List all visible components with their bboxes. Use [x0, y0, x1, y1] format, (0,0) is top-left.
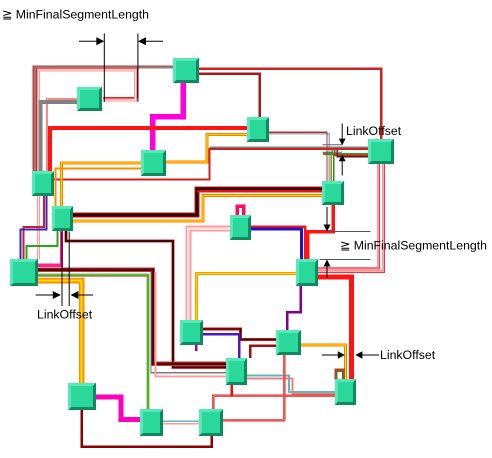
wire red thick N7 to N11 [308, 205, 333, 259]
wire maroon N10 to N17 [38, 270, 226, 364]
wire teal N15 to N16 [163, 420, 199, 422]
wire deeppink N8 to N12 [38, 231, 62, 265]
wire red N16 to N18 [213, 396, 335, 409]
wire gray into N17 [151, 272, 226, 373]
wire maroon jog into N5 [337, 150, 368, 157]
wire maroon N8 to N17 [66, 231, 226, 367]
wire red-green N10 to N15 [38, 275, 148, 409]
node N7 [322, 181, 344, 205]
wire green jog into N5 [332, 150, 368, 154]
annotation A4 MinFinalSegmentLength right [320, 207, 488, 278]
wire magenta N14 to N15 [96, 397, 140, 420]
wire salmon N15 to N16 [163, 423, 199, 425]
wire olive N8 to N10 [27, 231, 58, 261]
node N11 [296, 259, 318, 286]
annotation A1 MinFinalSegmentLength top-left [2, 8, 163, 102]
node N5 [368, 139, 394, 164]
wire magenta N1 to N3 [153, 83, 184, 150]
node N4 [247, 117, 269, 142]
node N6 [32, 171, 54, 196]
wire salmon N17 to N18 [247, 379, 335, 394]
wire orange N3 to N4 [166, 135, 247, 163]
wire purple N6 to N10 [21, 196, 47, 261]
svg-text:LinkOffset: LinkOffset [346, 124, 402, 138]
annotation A2 LinkOffset right [323, 124, 402, 176]
node N12 [180, 320, 203, 345]
wire blue N9 to N11 [251, 229, 302, 259]
wire maroon N14 to N16 [82, 410, 212, 447]
wire red into N7 [197, 191, 322, 193]
wire darkred N13 to N17 [250, 346, 276, 359]
wire crimson N1 to N5 [199, 69, 381, 139]
svg-text:≧ MinFinalSegmentLength: ≧ MinFinalSegmentLength [2, 8, 149, 22]
wire red thick N11 to N18 [318, 277, 352, 379]
wire salmon-red N5 to N11 b [318, 164, 384, 272]
wire crimson N6 to N5 [53, 149, 368, 179]
annotation A5 LinkOffset bottom-right [322, 348, 436, 362]
wire orange N3 to N8 [62, 163, 142, 206]
node N2 [77, 87, 102, 111]
wire orange N8 to N7 [73, 195, 322, 221]
node N8 [52, 206, 73, 231]
wire red N13 to N16 [223, 355, 285, 420]
wire red loop N2 to N6 [37, 69, 138, 171]
wire crimson N6 to N10 [24, 196, 45, 261]
wire salmon-red N5 to N11 a [318, 164, 379, 268]
svg-text:≧ MinFinalSegmentLength: ≧ MinFinalSegmentLength [340, 239, 487, 253]
wire darkred N12 to N13 [202, 329, 276, 340]
wire purple stub N12 [195, 345, 198, 351]
wire salmon into N17 [155, 272, 226, 376]
wire gray thick N2 to N6 [41, 102, 78, 171]
wire maroon N8 to N7 [73, 189, 322, 215]
node N17 [226, 358, 247, 385]
wire gray thin loop N1 to N6 [33, 66, 174, 171]
wire orange2 N3 to N8 [56, 169, 142, 207]
wire yellow N11 to N12 [197, 274, 301, 321]
wire green N4 to N7 [323, 154, 334, 181]
wire pink stub N9 [237, 206, 243, 216]
wire salmon loop N2 to N10 [39, 70, 136, 259]
svg-text:LinkOffset: LinkOffset [380, 348, 436, 362]
wire purple N11 to N13 [287, 286, 301, 330]
wire purple N12 to N17 [202, 334, 239, 358]
node N14 [68, 383, 96, 410]
node N10 [10, 259, 38, 286]
wire orange N10 to N14 [38, 281, 82, 383]
wire teal N17 to N18 [247, 376, 335, 392]
svg-text:LinkOffset: LinkOffset [37, 308, 93, 322]
node N15 [140, 409, 163, 436]
node N16 [199, 409, 223, 436]
node N9 [230, 215, 251, 240]
wire gray to N5 [210, 146, 368, 148]
annotation A3 LinkOffset left [36, 232, 93, 322]
wire red jog into N5 [335, 150, 369, 155]
wire red N9 to N11 [251, 227, 305, 259]
wire olive N4 to N7 [323, 153, 331, 181]
wire red stub into N7 top [267, 132, 327, 181]
node N3 [141, 150, 166, 176]
wire red stub N17 [230, 384, 233, 396]
node N13 [276, 330, 301, 355]
wire skyblue N4 to N5 [267, 134, 329, 181]
wire red thick N4 to N6 [50, 128, 247, 171]
wire red N2 to N6 [47, 99, 77, 171]
wire firebrick N1 to N4 [199, 74, 260, 117]
wire salmon N9 to N12 [188, 229, 230, 321]
wire orange N13 to N18 [301, 345, 345, 379]
node N18 [335, 379, 356, 405]
node N1 [173, 58, 199, 83]
wire olive stub N18 [336, 370, 344, 380]
